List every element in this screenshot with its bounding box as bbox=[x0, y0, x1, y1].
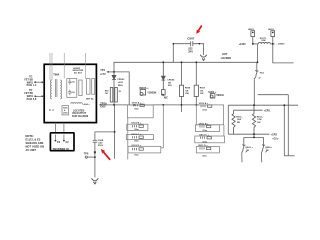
svg-text:SUB CHASSIS: SUB CHASSIS bbox=[72, 115, 89, 118]
svg-text:U913 D +: U913 D + bbox=[132, 145, 142, 147]
svg-text:2W: 2W bbox=[200, 93, 204, 95]
svg-text:5900H: 5900H bbox=[216, 94, 224, 97]
svg-text:15W: 15W bbox=[237, 119, 241, 121]
svg-text:+G2 ▸: +G2 ▸ bbox=[272, 137, 279, 140]
svg-text:5K: 5K bbox=[186, 90, 189, 92]
svg-text:TP1: TP1 bbox=[100, 69, 105, 72]
svg-text:/10m: /10m bbox=[203, 130, 208, 132]
svg-text:Y2805N: Y2805N bbox=[147, 91, 156, 94]
svg-text:- -DSDV: - -DSDV bbox=[276, 44, 285, 46]
svg-text:P941 5-8: P941 5-8 bbox=[27, 98, 37, 101]
svg-text:Q902+: Q902+ bbox=[265, 147, 273, 149]
svg-text:(1 +): (1 +) bbox=[49, 109, 54, 111]
svg-text:/10m: /10m bbox=[134, 109, 139, 111]
svg-text:R917: R917 bbox=[200, 88, 206, 90]
svg-text:T904: T904 bbox=[53, 73, 60, 77]
svg-text:/10m: /10m bbox=[203, 109, 208, 111]
svg-text:N/C: N/C bbox=[164, 98, 168, 100]
svg-text:/10m: /10m bbox=[134, 129, 139, 131]
svg-text:9B: 9B bbox=[266, 150, 269, 152]
svg-text:+130V: +130V bbox=[239, 43, 247, 46]
svg-text:20V: 20V bbox=[168, 85, 173, 87]
svg-text:5R: 5R bbox=[168, 82, 171, 84]
svg-text:250V: 250V bbox=[98, 145, 104, 147]
svg-text:10W: 10W bbox=[261, 40, 265, 42]
svg-text:5K: 5K bbox=[200, 90, 203, 92]
svg-text:LOCATED: LOCATED bbox=[73, 109, 85, 112]
svg-text:ON OUTPUT: ON OUTPUT bbox=[72, 113, 87, 115]
svg-text:TO: TO bbox=[29, 76, 32, 78]
svg-text:L903: L903 bbox=[63, 112, 68, 114]
svg-text:+17V: +17V bbox=[100, 73, 106, 76]
svg-text:CR905: CR905 bbox=[167, 80, 175, 82]
svg-text:SET AL: SET AL bbox=[86, 98, 95, 101]
svg-text:UH01: UH01 bbox=[248, 29, 255, 31]
svg-text:/10m: /10m bbox=[134, 154, 139, 156]
svg-text:P941 1-4: P941 1-4 bbox=[27, 84, 37, 87]
svg-text:U913 C +: U913 C + bbox=[132, 134, 142, 136]
svg-text:9W01: 9W01 bbox=[27, 82, 34, 84]
svg-text:AV UNIT: AV UNIT bbox=[26, 148, 37, 152]
svg-text:5W: 5W bbox=[237, 122, 240, 124]
svg-text:+20V: +20V bbox=[100, 106, 106, 109]
svg-text:TO: TO bbox=[29, 90, 32, 92]
svg-text:C907: C907 bbox=[187, 37, 194, 41]
svg-text:FET BD: FET BD bbox=[24, 79, 33, 81]
svg-text:TP6: TP6 bbox=[84, 152, 89, 155]
svg-text:1K: 1K bbox=[119, 91, 122, 93]
svg-text:NOTE:: NOTE: bbox=[26, 134, 34, 138]
svg-text:9B: 9B bbox=[246, 150, 249, 152]
svg-text:E1,E2, & E3: E1,E2, & E3 bbox=[26, 138, 41, 142]
svg-text:CR903: CR903 bbox=[117, 79, 125, 81]
svg-text:L904 +: L904 + bbox=[83, 103, 91, 106]
svg-text:SNUBBER 40: SNUBBER 40 bbox=[53, 148, 70, 151]
svg-text:SHIELDS ARE: SHIELDS ARE bbox=[26, 141, 44, 145]
svg-text:HOT: HOT bbox=[222, 53, 228, 56]
svg-text:/10m: /10m bbox=[203, 141, 208, 143]
svg-text:5W: 5W bbox=[257, 122, 260, 124]
svg-text:UH01: UH01 bbox=[268, 29, 275, 31]
svg-text:U903A +: U903A + bbox=[139, 87, 149, 90]
svg-text:/10m: /10m bbox=[134, 140, 139, 142]
svg-text:LOADED: LOADED bbox=[221, 57, 232, 60]
svg-text:R909: R909 bbox=[185, 88, 191, 90]
svg-text:AC 903: AC 903 bbox=[74, 72, 82, 75]
svg-text:HC1: HC1 bbox=[260, 73, 265, 75]
svg-text:Q901 +: Q901 + bbox=[245, 147, 253, 149]
svg-text:2W: 2W bbox=[185, 93, 189, 95]
svg-text:R911+: R911+ bbox=[236, 116, 243, 118]
svg-text:NOT USED ON: NOT USED ON bbox=[26, 145, 45, 149]
svg-text:FET BD: FET BD bbox=[24, 93, 33, 95]
svg-text:+CPS: +CPS bbox=[271, 134, 278, 136]
svg-text:+20V: +20V bbox=[118, 82, 124, 84]
svg-text:2KV: 2KV bbox=[188, 50, 193, 53]
svg-text:+CPS: +CPS bbox=[264, 110, 271, 112]
svg-text:/10m: /10m bbox=[202, 156, 207, 158]
svg-text:5K: 5K bbox=[105, 93, 108, 95]
svg-text:REG: REG bbox=[118, 85, 123, 87]
svg-text:9W01: 9W01 bbox=[27, 96, 34, 98]
svg-text:U913 B +: U913 B + bbox=[132, 123, 142, 125]
svg-text:15W: 15W bbox=[257, 119, 261, 121]
svg-text:R912+: R912+ bbox=[257, 116, 264, 118]
